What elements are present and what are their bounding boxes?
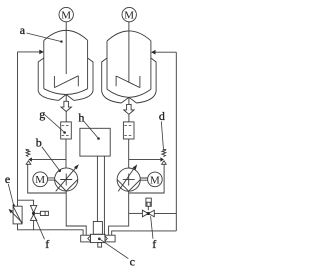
svg-text:c: c bbox=[130, 254, 135, 268]
svg-text:M: M bbox=[124, 9, 134, 21]
svg-text:b: b bbox=[36, 135, 42, 149]
svg-text:M: M bbox=[150, 174, 160, 186]
svg-text:f: f bbox=[45, 237, 49, 251]
svg-text:a: a bbox=[20, 23, 26, 37]
svg-text:d: d bbox=[159, 109, 165, 123]
svg-text:e: e bbox=[5, 172, 10, 186]
svg-text:M: M bbox=[61, 9, 71, 21]
svg-text:f: f bbox=[152, 237, 156, 251]
svg-text:M: M bbox=[35, 174, 45, 186]
svg-text:h: h bbox=[78, 110, 84, 124]
svg-text:g: g bbox=[39, 107, 45, 121]
